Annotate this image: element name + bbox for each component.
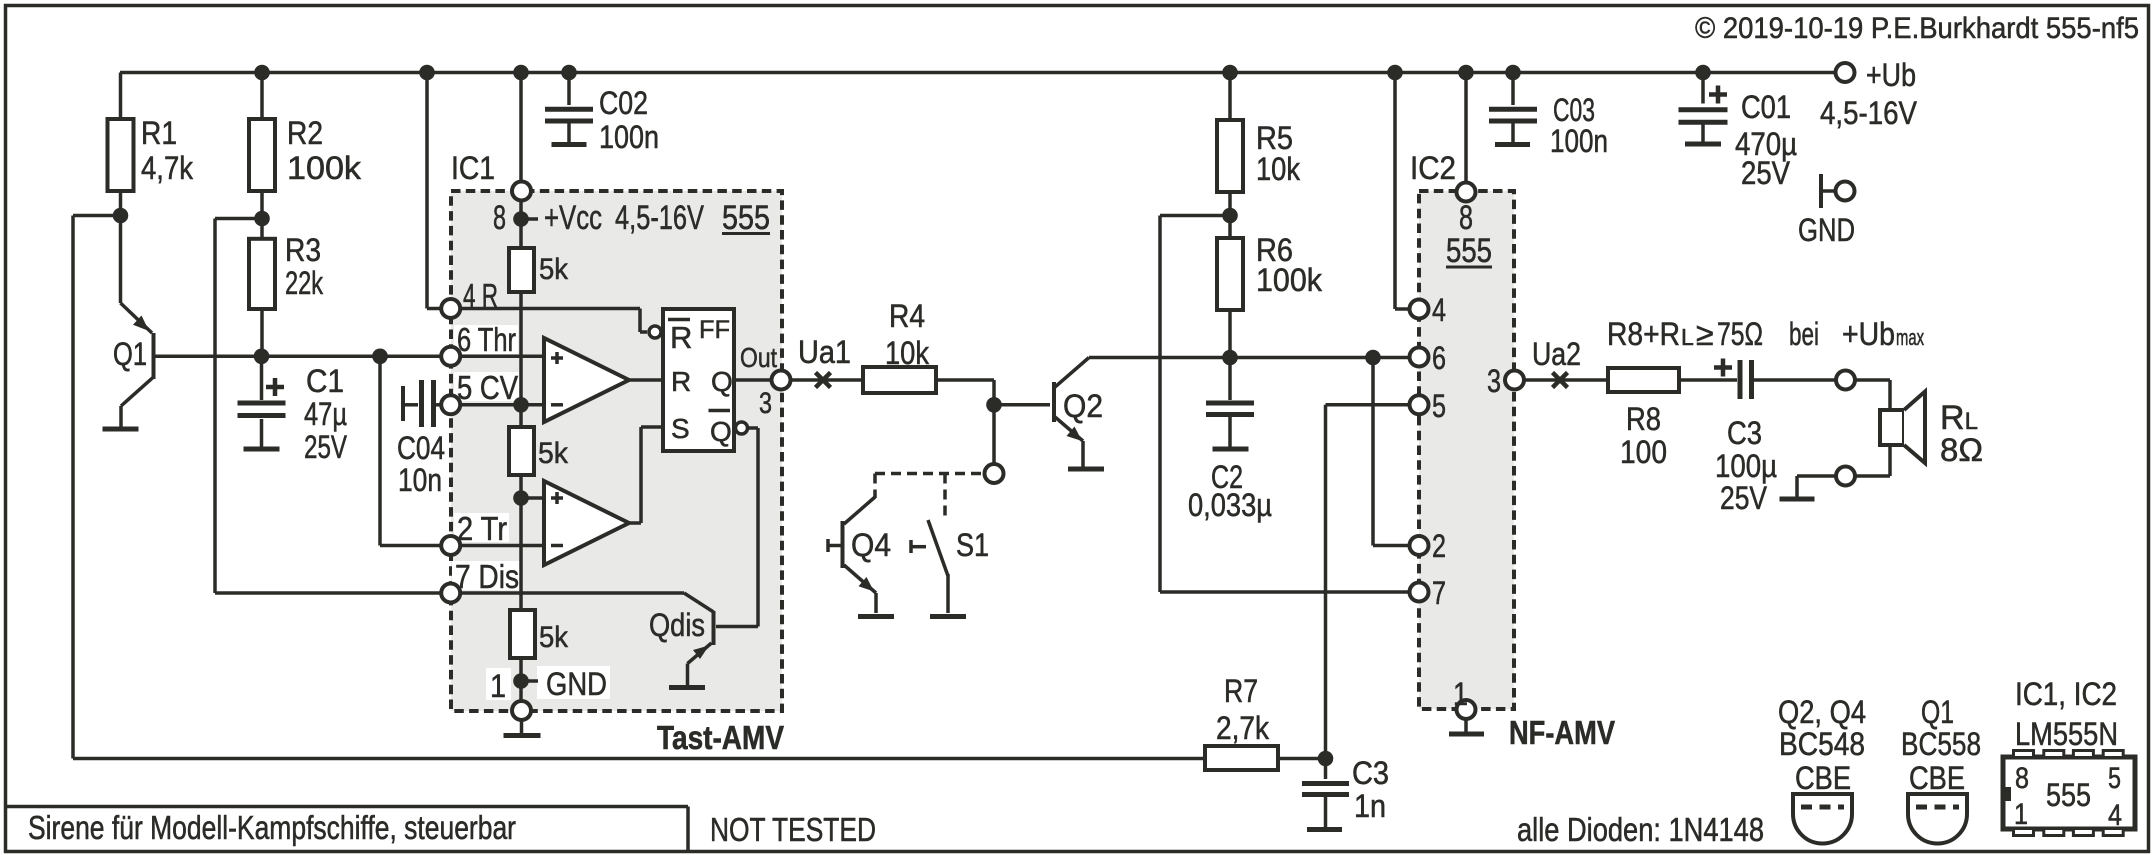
- svg-text:1n: 1n: [1354, 788, 1386, 824]
- svg-text:25V: 25V: [304, 429, 347, 465]
- svg-text:8: 8: [2015, 762, 2029, 795]
- svg-text:8: 8: [493, 199, 506, 237]
- svg-text:alle Dioden: 1N4148: alle Dioden: 1N4148: [1517, 811, 1764, 848]
- svg-text:1: 1: [490, 668, 506, 704]
- svg-text:75Ω: 75Ω: [1717, 316, 1763, 352]
- svg-text:C3: C3: [1352, 755, 1389, 791]
- svg-text:IC2: IC2: [1410, 150, 1456, 186]
- svg-text:8Ω: 8Ω: [1940, 432, 1983, 468]
- svg-text:+Ub: +Ub: [1842, 316, 1895, 352]
- svg-text:5k: 5k: [538, 437, 569, 470]
- svg-text:1: 1: [1453, 676, 1468, 712]
- svg-text:5k: 5k: [539, 621, 569, 654]
- svg-text:R8: R8: [1626, 401, 1661, 437]
- svg-text:Q2: Q2: [1063, 388, 1103, 424]
- svg-text:47µ: 47µ: [304, 396, 347, 432]
- svg-text:R4: R4: [889, 298, 925, 334]
- svg-text:0,033µ: 0,033µ: [1188, 487, 1272, 523]
- svg-text:555: 555: [1446, 232, 1492, 270]
- svg-text:C04: C04: [397, 430, 445, 466]
- svg-text:Ua1: Ua1: [798, 334, 851, 370]
- svg-text:Tast-AMV: Tast-AMV: [657, 719, 784, 756]
- svg-text:R2: R2: [287, 115, 323, 151]
- svg-text:22k: 22k: [285, 265, 324, 301]
- svg-text:555: 555: [2046, 777, 2091, 813]
- svg-text:Q4: Q4: [851, 527, 891, 563]
- svg-text:R1: R1: [141, 115, 177, 151]
- svg-text:C3: C3: [1727, 415, 1762, 451]
- svg-text:5: 5: [2108, 762, 2121, 795]
- svg-text:3: 3: [1487, 363, 1501, 399]
- svg-text:4 R: 4 R: [463, 277, 498, 314]
- svg-text:4,5-16V: 4,5-16V: [1820, 95, 1918, 131]
- svg-text:R: R: [670, 320, 692, 355]
- svg-text:25V: 25V: [1741, 155, 1791, 191]
- svg-text:Q1: Q1: [1921, 694, 1954, 730]
- svg-text:BC548: BC548: [1779, 726, 1865, 762]
- svg-text:100: 100: [1620, 434, 1667, 470]
- svg-text:LM555N: LM555N: [2015, 716, 2118, 752]
- svg-text:R: R: [671, 366, 691, 397]
- svg-text:NOT TESTED: NOT TESTED: [710, 811, 876, 848]
- svg-text:4,7k: 4,7k: [141, 150, 194, 186]
- svg-text:CBE: CBE: [1909, 760, 1965, 796]
- svg-text:5k: 5k: [539, 253, 569, 286]
- svg-text:Out: Out: [740, 342, 777, 373]
- svg-text:2,7k: 2,7k: [1216, 710, 1270, 746]
- svg-text:555: 555: [722, 199, 770, 237]
- svg-text:max: max: [1896, 325, 1924, 350]
- svg-text:Q1: Q1: [113, 336, 147, 372]
- svg-text:BC558: BC558: [1901, 726, 1981, 762]
- svg-text:7 Dis: 7 Dis: [455, 558, 519, 595]
- svg-text:5: 5: [1432, 388, 1446, 424]
- svg-text:GND: GND: [546, 666, 607, 702]
- svg-text:C01: C01: [1741, 89, 1791, 125]
- svg-text:100k: 100k: [1256, 262, 1323, 298]
- svg-text:100n: 100n: [599, 119, 659, 155]
- svg-text:+Vcc: +Vcc: [544, 199, 602, 237]
- svg-text:IC1, IC2: IC1, IC2: [2015, 676, 2117, 712]
- svg-text:C02: C02: [599, 85, 648, 121]
- svg-text:S: S: [671, 413, 690, 444]
- svg-text:Q: Q: [711, 366, 733, 397]
- svg-text:Q: Q: [710, 416, 732, 447]
- svg-text:10n: 10n: [398, 462, 442, 498]
- svg-text:Sirene für Modell-Kampfschiffe: Sirene für Modell-Kampfschiffe, steuerba…: [28, 809, 516, 846]
- svg-text:R8+R: R8+R: [1607, 316, 1680, 352]
- svg-text:Q2, Q4: Q2, Q4: [1778, 694, 1866, 730]
- svg-text:C1: C1: [306, 363, 344, 399]
- svg-text:2 Tr: 2 Tr: [457, 510, 507, 547]
- svg-text:≥: ≥: [1696, 316, 1714, 352]
- svg-text:Ua2: Ua2: [1532, 336, 1581, 372]
- svg-text:+Ub: +Ub: [1866, 57, 1916, 93]
- svg-text:10k: 10k: [1256, 151, 1301, 187]
- svg-text:100µ: 100µ: [1715, 448, 1777, 484]
- svg-text:4: 4: [2108, 799, 2122, 832]
- svg-text:7: 7: [1432, 575, 1446, 611]
- svg-text:S1: S1: [956, 527, 989, 563]
- svg-text:FF: FF: [699, 316, 730, 344]
- svg-text:IC1: IC1: [451, 150, 495, 186]
- svg-text:GND: GND: [1798, 212, 1855, 248]
- svg-text:100k: 100k: [287, 150, 362, 186]
- svg-text:1: 1: [2014, 798, 2028, 831]
- svg-text:NF-AMV: NF-AMV: [1509, 714, 1615, 751]
- svg-text:4,5-16V: 4,5-16V: [615, 199, 704, 237]
- svg-text:2: 2: [1432, 528, 1446, 564]
- svg-text:bei: bei: [1789, 316, 1819, 352]
- svg-text:© 2019-10-19 P.E.Burkhardt 555: © 2019-10-19 P.E.Burkhardt 555-nf5: [1695, 12, 2139, 45]
- svg-text:10k: 10k: [885, 335, 930, 371]
- svg-text:L: L: [1681, 324, 1694, 350]
- svg-text:3: 3: [759, 387, 772, 420]
- svg-text:5 CV: 5 CV: [457, 369, 518, 406]
- svg-text:4: 4: [1432, 292, 1446, 328]
- svg-text:CBE: CBE: [1795, 760, 1851, 796]
- svg-text:6: 6: [1432, 340, 1446, 376]
- svg-text:25V: 25V: [1720, 480, 1768, 516]
- svg-text:R3: R3: [285, 232, 321, 268]
- svg-text:Qdis: Qdis: [649, 607, 705, 643]
- svg-text:100n: 100n: [1550, 123, 1608, 159]
- svg-text:R7: R7: [1224, 673, 1258, 709]
- svg-text:6 Thr: 6 Thr: [457, 321, 516, 358]
